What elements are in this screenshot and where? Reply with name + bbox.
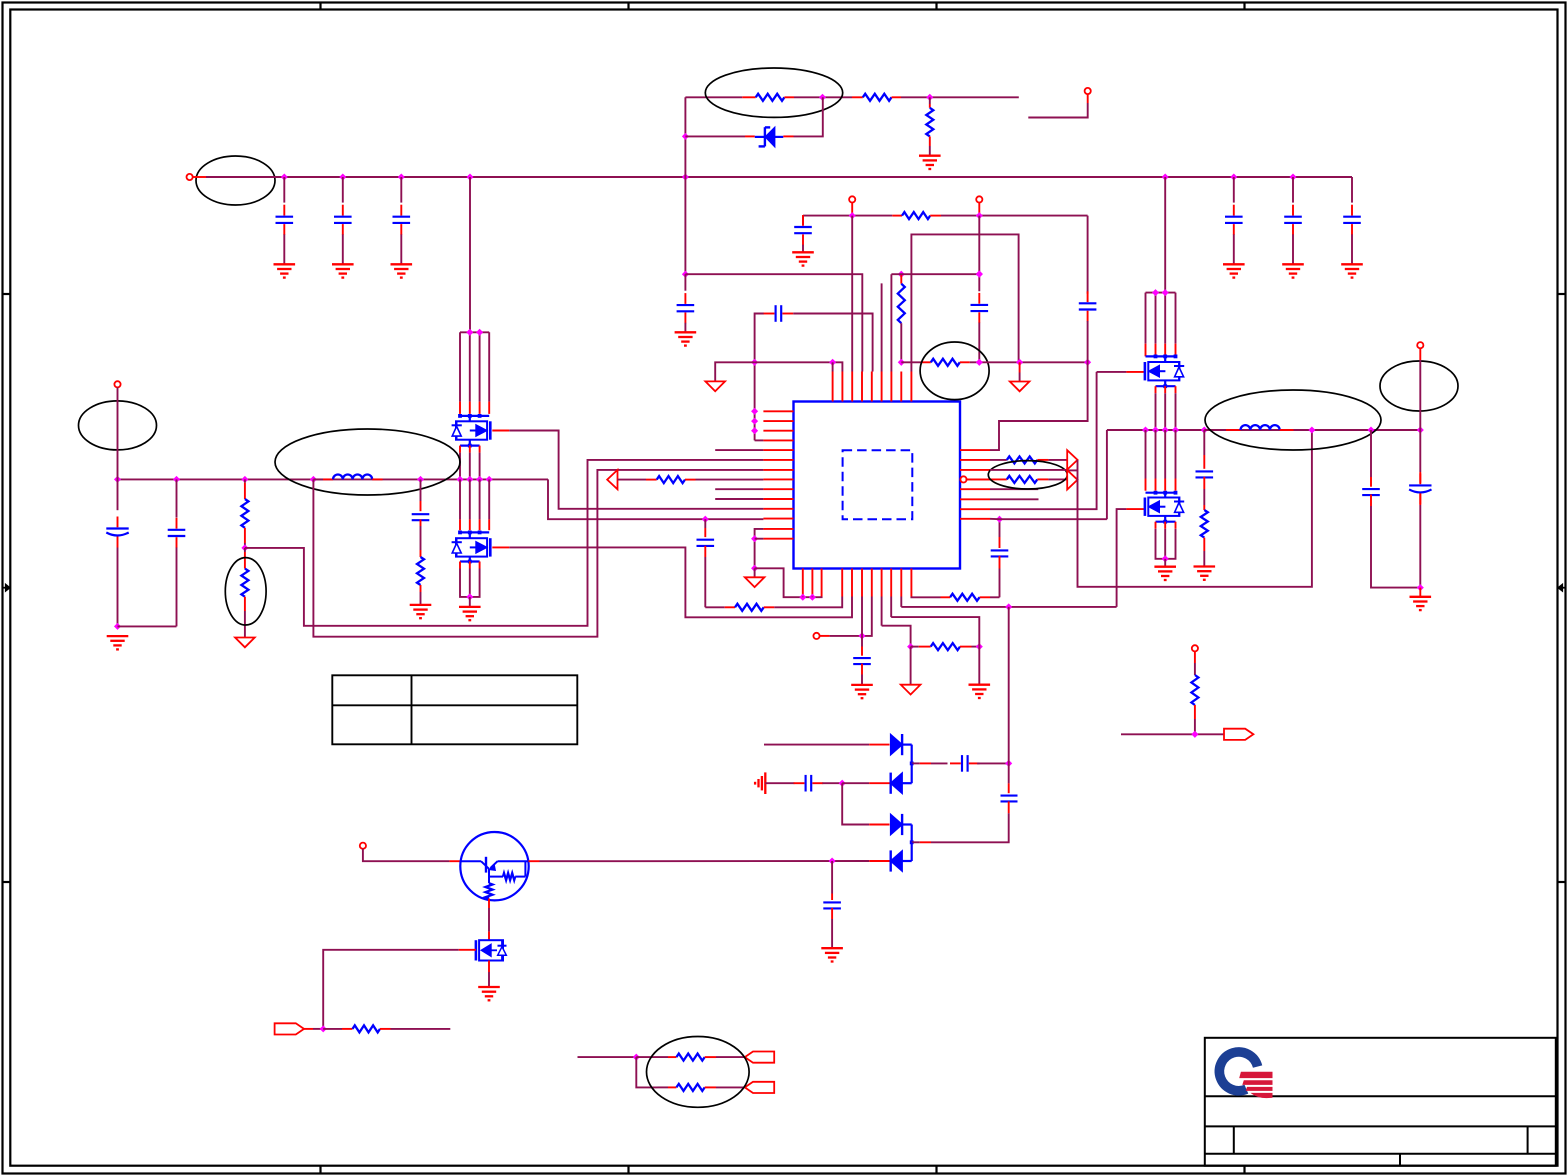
wire Q5 collector stub — [529, 860, 540, 862]
power flag PF1 — [705, 381, 725, 391]
wire pin499r stub — [990, 498, 1039, 500]
node collector junction — [829, 857, 836, 864]
terminal J7 — [813, 633, 819, 639]
wire cp rail — [1008, 607, 1010, 793]
wire Q2 source bundle — [460, 557, 480, 607]
wire Q5 emitter — [488, 899, 490, 941]
resistor R13 — [990, 456, 1067, 463]
resistor R4 — [892, 212, 941, 219]
capacitor C14 — [412, 479, 430, 550]
open arrow OUT2 — [1067, 470, 1077, 489]
wire Q1 source bundle — [460, 440, 480, 480]
ground for Q6 — [478, 987, 500, 1000]
wire J7 net — [820, 597, 872, 636]
wire pin489r stub — [990, 488, 1038, 490]
offpage connector OP3 — [745, 1082, 774, 1093]
wire phase right — [1000, 430, 1107, 519]
capacitor C8 — [971, 216, 989, 363]
capacitor C2 — [334, 177, 352, 264]
capacitor C5 — [1284, 177, 1302, 264]
resistor R11 — [705, 597, 842, 611]
inductor L2 — [1204, 425, 1293, 430]
transistor Q2 — [452, 479, 491, 556]
capacitor C4 — [1225, 177, 1243, 264]
wire bottom-left pins net — [755, 568, 822, 600]
wire Q4 source bundle — [1156, 516, 1176, 567]
ground for Q2 — [459, 607, 481, 620]
wire net234 — [911, 234, 1018, 371]
wire feedback netB — [313, 470, 763, 637]
capacitor C12 bulk — [106, 387, 128, 626]
node divider mid — [241, 544, 248, 551]
wire Q6 source — [488, 961, 490, 988]
terminal J3 — [849, 196, 855, 202]
terminal J4 — [976, 196, 982, 202]
revision table — [332, 675, 577, 744]
resistor R20 — [1191, 651, 1198, 734]
resistor R17 — [323, 1025, 450, 1032]
ground for C7 — [792, 252, 814, 265]
resistor R19 — [658, 1084, 745, 1091]
offpage connector OP2 — [745, 1052, 774, 1063]
ground for C4 — [1223, 264, 1245, 277]
ellipse highlight L2 — [1205, 390, 1381, 450]
resistor R10 — [618, 476, 764, 483]
transistor Q1 — [452, 177, 491, 440]
power flag PF3 — [235, 638, 255, 648]
capacitor C7 — [794, 215, 812, 252]
wire J8 net — [363, 849, 461, 861]
node top bus junctions — [281, 173, 1297, 180]
wire Q3 source bundle — [1156, 380, 1176, 430]
ground for C5 — [1282, 264, 1304, 277]
node C16 junction — [996, 516, 1003, 523]
wire net274 — [685, 274, 862, 371]
inductor L1 — [313, 475, 382, 480]
wire right rail — [1164, 177, 1166, 293]
zener diode D5 — [685, 97, 822, 146]
power flag PF4 — [745, 568, 765, 587]
wire sense2 — [636, 1057, 657, 1087]
capacitor C15 — [697, 519, 715, 607]
resistor R12 — [911, 594, 999, 601]
resistor R3 — [926, 97, 933, 155]
ellipse highlight R6 — [920, 342, 989, 400]
wire FET gate stub1 — [1097, 371, 1144, 373]
capacitor C19 bulk — [1409, 348, 1431, 587]
wire J2 stub — [1028, 94, 1087, 117]
wire pin518 right — [990, 518, 1000, 520]
node net362a junction — [829, 359, 836, 372]
ellipse highlight R13 R14 — [988, 461, 1067, 489]
wire pin862 — [861, 597, 863, 636]
power flag PF2 — [1010, 362, 1030, 391]
ground rotated GR1 — [755, 772, 765, 794]
IC U1 body — [794, 402, 961, 569]
node bus479 junctions — [114, 476, 709, 523]
node D3 cathode — [910, 840, 914, 844]
diode D3 — [891, 814, 912, 842]
capacitor C10 — [755, 305, 873, 371]
power flag PF5 — [901, 647, 921, 695]
ground for C6 — [1341, 264, 1363, 277]
wire D2 anode — [842, 782, 889, 784]
ground for C20 — [851, 685, 873, 698]
node top net junctions — [819, 94, 933, 101]
ground for C24 — [821, 948, 843, 961]
resistor R18 — [636, 1054, 745, 1061]
ellipse highlight L1 — [275, 429, 460, 495]
capacitor C21 — [912, 755, 1009, 772]
ground for C9 — [675, 332, 697, 345]
terminal J6 — [1417, 342, 1423, 348]
ellipse highlight R1 — [705, 68, 842, 117]
ground for R16 — [969, 685, 991, 698]
capacitor C22 — [765, 775, 842, 792]
wire pin470 net — [990, 469, 1078, 472]
capacitor C1 — [276, 177, 294, 264]
sheet right mid arrow — [1558, 584, 1566, 592]
open arrow OUT1 — [1067, 450, 1077, 469]
resistor R14 — [966, 476, 1068, 483]
node R20 junction — [1191, 731, 1198, 738]
wire Q6 gate — [323, 950, 476, 1029]
wire net362b — [976, 359, 1091, 366]
terminal J5 — [114, 381, 120, 387]
resistor R5 — [891, 271, 904, 372]
ground for R15 — [1194, 567, 1216, 580]
sheet left mid arrow — [3, 584, 11, 592]
wire net274b — [891, 271, 982, 363]
wire left rail — [684, 97, 686, 274]
node out gnd junction — [1417, 584, 1424, 591]
wire out gnd stub — [1419, 588, 1421, 597]
transistor Q3 — [1145, 289, 1184, 380]
IC U1 pins — [763, 372, 990, 597]
wire to power flag — [715, 362, 754, 381]
company logo — [1219, 1052, 1272, 1098]
wire right bus430 — [1107, 429, 1420, 431]
title block — [1205, 1038, 1556, 1166]
node C22 junction — [839, 780, 846, 787]
ellipse highlight R8 — [225, 558, 266, 625]
ground for R9 — [410, 605, 432, 618]
terminal J8 — [360, 843, 366, 849]
resistor R6 — [898, 359, 980, 366]
terminal J9 — [1192, 645, 1198, 651]
capacitor C3 — [393, 177, 411, 264]
wire Q2 gate — [492, 547, 852, 617]
ground for Q4 — [1154, 567, 1176, 580]
ellipse highlight J5 — [79, 401, 157, 450]
wire pin499 stub — [715, 498, 763, 500]
open arrow IN1 — [607, 470, 617, 489]
node net606 junction — [1005, 603, 1012, 610]
node C21 junction — [1005, 760, 1012, 767]
wire R16 gnd — [978, 647, 980, 685]
wire pin891 net — [891, 597, 979, 647]
wire D4 anode — [869, 860, 889, 862]
ground for C3 — [391, 264, 413, 277]
wire stub881 — [881, 283, 883, 371]
capacitor C16 — [991, 519, 1009, 597]
capacitor C23 — [912, 796, 1018, 843]
wire OP1 net — [304, 1028, 323, 1030]
no-connect circle on U1 pin — [960, 476, 966, 482]
node bus430 junctions — [1142, 426, 1424, 433]
resistor divider R7 — [241, 479, 248, 548]
ground for C1 — [274, 264, 296, 277]
ground for C2 — [332, 264, 354, 277]
wire rail754b — [751, 529, 763, 572]
node D1 cathode — [910, 762, 914, 766]
capacitor C6 — [1343, 177, 1361, 264]
capacitor C24 — [823, 861, 841, 948]
wire sense rail — [1078, 430, 1312, 587]
wire sense in — [578, 1056, 637, 1058]
ground for C12 — [107, 636, 129, 649]
node net215 junctions — [849, 212, 983, 219]
diode D2 — [891, 763, 912, 793]
resistor R9 — [417, 550, 424, 605]
node rail junctions — [682, 133, 689, 278]
node C8 junction — [976, 270, 983, 277]
transistor Q6 — [476, 940, 507, 960]
node OP1 junction — [320, 1025, 327, 1032]
capacitor C9 — [677, 274, 695, 332]
wire R20 net — [1121, 733, 1224, 735]
wire rail754 — [755, 362, 764, 440]
ground for output — [1410, 597, 1432, 610]
wire net421 — [990, 362, 1088, 450]
capacitor C11 — [1079, 216, 1097, 363]
ellipse highlight J6 — [1380, 361, 1458, 411]
node gnd left junction — [114, 623, 121, 630]
wire U1 pin net bottom — [901, 509, 1144, 607]
wire Q1 gate — [492, 431, 763, 509]
offpage connector OP1 — [275, 1023, 304, 1034]
resistor divider R8 — [241, 548, 248, 638]
resistor R2 — [852, 94, 901, 101]
ellipse highlight J1 — [196, 156, 275, 205]
capacitor C17 — [1196, 430, 1214, 505]
wire pin450 stub — [715, 449, 763, 451]
resistor R1 — [742, 94, 794, 101]
terminal J2 — [1085, 88, 1091, 94]
wire pin489 stub — [715, 488, 763, 490]
wire D1 anode — [764, 744, 890, 746]
diode D4 — [891, 842, 912, 871]
node J7 junction — [858, 632, 865, 639]
capacitor C13 — [118, 479, 186, 626]
capacitor C18 — [1362, 430, 1420, 588]
wire D3 anode — [842, 783, 889, 824]
wire net215 — [803, 203, 1088, 216]
input terminal J1 — [187, 174, 193, 180]
wire U1 gate net1 — [990, 372, 1097, 509]
diode D1 — [891, 734, 912, 763]
wire mid bus479 — [118, 479, 764, 519]
transistor Q5 — [460, 832, 528, 900]
wire collector net — [540, 860, 870, 862]
node sense junction — [633, 1054, 640, 1061]
wire U1 top pin feed — [851, 216, 853, 372]
wire top net — [685, 96, 1018, 98]
wire net362a — [755, 362, 843, 371]
transistor Q4 — [1145, 430, 1184, 516]
resistor R16 row — [882, 597, 983, 651]
ground for R3 — [919, 156, 941, 169]
resistor R15 — [1201, 505, 1208, 567]
node rail754 junctions — [751, 359, 758, 434]
wire feedback netA — [245, 460, 764, 626]
ellipse highlight R18 R19 — [647, 1037, 750, 1108]
wire top bus — [193, 176, 1352, 178]
capacitor C20 — [853, 636, 871, 685]
offpage connector OP4 — [1224, 729, 1253, 740]
